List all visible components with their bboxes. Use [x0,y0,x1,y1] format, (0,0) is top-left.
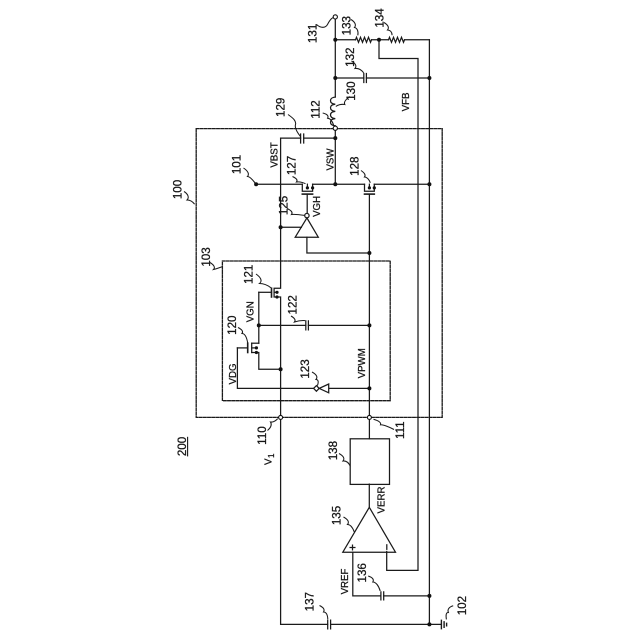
svg-text:VGN: VGN [245,301,256,322]
svg-text:111: 111 [394,421,407,439]
svg-text:100: 100 [172,180,185,199]
svg-text:102: 102 [456,596,469,615]
svg-text:VGH: VGH [312,196,323,217]
svg-text:VREF: VREF [340,569,351,595]
svg-text:110: 110 [256,426,269,444]
svg-text:VBST: VBST [270,142,281,167]
svg-text:1: 1 [267,453,276,458]
svg-text:VFB: VFB [401,92,412,111]
svg-text:VDG: VDG [228,364,239,385]
svg-text:132: 132 [344,48,357,67]
svg-text:136: 136 [356,563,369,582]
svg-text:125: 125 [278,196,291,215]
svg-text:101: 101 [231,155,244,174]
svg-text:121: 121 [242,265,255,284]
svg-text:130: 130 [345,81,358,100]
svg-text:134: 134 [373,8,386,28]
svg-text:138: 138 [327,441,340,460]
svg-text:129: 129 [275,98,288,117]
svg-text:120: 120 [226,316,239,335]
svg-text:123: 123 [299,359,312,378]
svg-text:135: 135 [331,506,344,525]
svg-text:112: 112 [310,100,323,118]
svg-text:VERR: VERR [377,487,388,514]
svg-text:133: 133 [341,16,354,35]
svg-text:131: 131 [307,24,320,43]
svg-text:128: 128 [348,157,361,176]
svg-text:103: 103 [200,247,213,266]
svg-text:137: 137 [303,592,316,611]
svg-text:VPWM: VPWM [357,348,368,378]
svg-text:127: 127 [286,156,299,175]
svg-text:VSW: VSW [326,148,337,171]
svg-text:122: 122 [287,295,300,314]
svg-text:V: V [264,458,275,465]
